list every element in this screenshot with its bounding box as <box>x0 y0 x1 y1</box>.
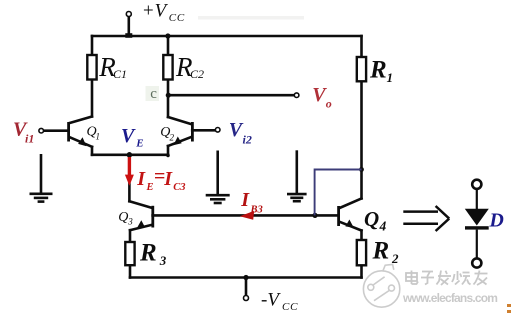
svg-text:I: I <box>136 168 146 190</box>
diode D triangle <box>465 209 489 226</box>
svg-text:CC: CC <box>169 12 185 24</box>
transistor Q2 base bar <box>191 122 194 142</box>
junction dot -VCC tap <box>243 275 248 280</box>
diode D anode lead <box>476 189 478 209</box>
junction dot Q2 emitter at VE rail <box>166 154 170 158</box>
ground below Vi2 <box>206 151 230 204</box>
wire R3 bottom lead <box>129 265 132 277</box>
char 电 <box>406 273 417 281</box>
wire base rail Q3 to Q4 <box>153 214 339 217</box>
wire Q2 emitter diagonal <box>168 137 191 146</box>
svg-text:C3: C3 <box>173 182 185 193</box>
wire RC2 bottom lead to node c <box>167 80 170 118</box>
svg-text:c: c <box>150 86 157 102</box>
wire R1 top lead <box>360 36 363 57</box>
transistor Q1 emitter arrow <box>78 137 86 146</box>
svg-text:o: o <box>326 97 332 111</box>
svg-text:D: D <box>488 210 503 232</box>
svg-text:1: 1 <box>96 132 101 142</box>
terminal +VCC <box>126 12 131 17</box>
svg-text:E: E <box>146 182 154 193</box>
terminal Vo <box>294 93 299 98</box>
char 烧 <box>457 271 459 280</box>
svg-text:3: 3 <box>159 253 167 268</box>
junction dot VE node <box>127 152 133 158</box>
svg-text:4: 4 <box>379 219 387 234</box>
transistor Q2 emitter arrow <box>173 137 181 146</box>
svg-text:i2: i2 <box>243 133 252 147</box>
svg-text:2: 2 <box>170 132 175 142</box>
wire -VCC terminal lead <box>245 278 248 296</box>
resistor RC1 <box>87 55 96 80</box>
wire Q4 emitter to R2 <box>360 231 363 241</box>
wire Q1 base lead <box>44 129 69 132</box>
svg-text:B3: B3 <box>250 205 263 216</box>
svg-text:+V: +V <box>142 0 169 21</box>
wire RC1 bottom lead <box>91 80 94 117</box>
ground at Vi1 <box>30 154 53 202</box>
char 友 <box>475 273 488 275</box>
arrow big implication double arrow <box>403 206 449 231</box>
watermark logo circle <box>363 264 399 307</box>
svg-text:CC: CC <box>282 301 298 313</box>
svg-text:C1: C1 <box>113 67 127 81</box>
wire bottom -VCC rail <box>130 276 362 279</box>
label node c <box>146 86 160 101</box>
svg-text:I: I <box>240 189 250 211</box>
wire Q1 emitter vertical <box>91 147 94 155</box>
svg-text:I: I <box>163 168 173 190</box>
svg-text:R: R <box>372 238 390 265</box>
current arrow IB3 (red) <box>240 211 254 220</box>
svg-text:C2: C2 <box>190 67 204 81</box>
terminal Vi1 <box>39 128 44 133</box>
svg-text:3: 3 <box>127 216 133 226</box>
svg-text:R: R <box>139 240 157 267</box>
svg-text:1: 1 <box>387 70 394 85</box>
diode D cathode lead <box>476 230 478 258</box>
transistor Q4 base bar <box>337 206 340 226</box>
wire R2 bottom lead <box>360 265 363 277</box>
junction dot at RC2 top <box>165 33 170 38</box>
wire Q2 collector diagonal <box>168 117 191 124</box>
transistor Q4 emitter arrow <box>345 220 353 228</box>
diode D terminal bottom <box>472 258 481 267</box>
transistor Q3 base bar <box>151 206 154 228</box>
ground below Vo <box>287 150 307 201</box>
wire Q4 emitter diagonal <box>340 222 362 231</box>
watermark text www.elecfans.com <box>403 292 497 304</box>
watermark orange dots <box>507 304 511 307</box>
svg-text:i1: i1 <box>25 131 34 145</box>
svg-text:-V: -V <box>261 289 281 310</box>
wire +VCC terminal lead <box>128 17 131 37</box>
transistor Q3 emitter arrow <box>137 220 146 228</box>
junction dot node c <box>166 93 171 98</box>
diode D cathode bar <box>465 226 489 229</box>
svg-text:Q: Q <box>118 210 128 225</box>
wire VE rail <box>92 154 168 157</box>
resistor RC2 <box>163 55 172 80</box>
diode D terminal top <box>472 180 481 189</box>
wire VE node down to Q3 collector <box>128 155 131 202</box>
wire Q1 emitter diagonal <box>70 137 92 147</box>
wire Q4 collector diagonal <box>340 199 362 209</box>
junction +VCC tap tick <box>125 33 132 38</box>
svg-text:V: V <box>121 125 136 147</box>
wire RC1 top lead <box>91 36 94 55</box>
wire Q3 collector diagonal <box>129 201 151 208</box>
terminal Vi2 <box>215 128 220 133</box>
wire top bus +VCC rail <box>92 35 362 38</box>
char 发 <box>438 275 451 277</box>
wire Q1 collector diagonal <box>70 117 92 124</box>
wire Q2 emitter vertical <box>167 146 170 155</box>
char 子 <box>422 271 433 273</box>
current arrow IE (red) <box>125 157 134 186</box>
wire Q3 emitter to R3 <box>129 230 132 242</box>
terminal -VCC <box>244 296 249 301</box>
transistor Q1 base bar <box>67 122 70 142</box>
faint watermark remnant streak top <box>198 16 304 20</box>
resistor R2 <box>357 240 366 265</box>
svg-text:R: R <box>369 56 387 83</box>
watermark text 电子发烧友 (drawn strokes, no CJK font available) <box>406 271 488 286</box>
wire R1 bottom to Q4 collector <box>360 81 363 198</box>
resistor R1 <box>357 57 366 81</box>
wire blue base-collector tie of Q4 <box>315 170 362 216</box>
wire Q2 base lead <box>192 129 215 132</box>
junction dot base rail / blue wire <box>312 213 317 218</box>
junction dot blue wire / collector column <box>359 167 364 172</box>
svg-text:Q: Q <box>364 207 379 231</box>
resistor R3 <box>125 242 134 265</box>
wire RC2 top lead <box>167 36 170 55</box>
wire Q3 emitter diagonal <box>130 225 152 230</box>
svg-text:E: E <box>135 138 143 150</box>
wire node c to Vo output <box>168 94 294 97</box>
